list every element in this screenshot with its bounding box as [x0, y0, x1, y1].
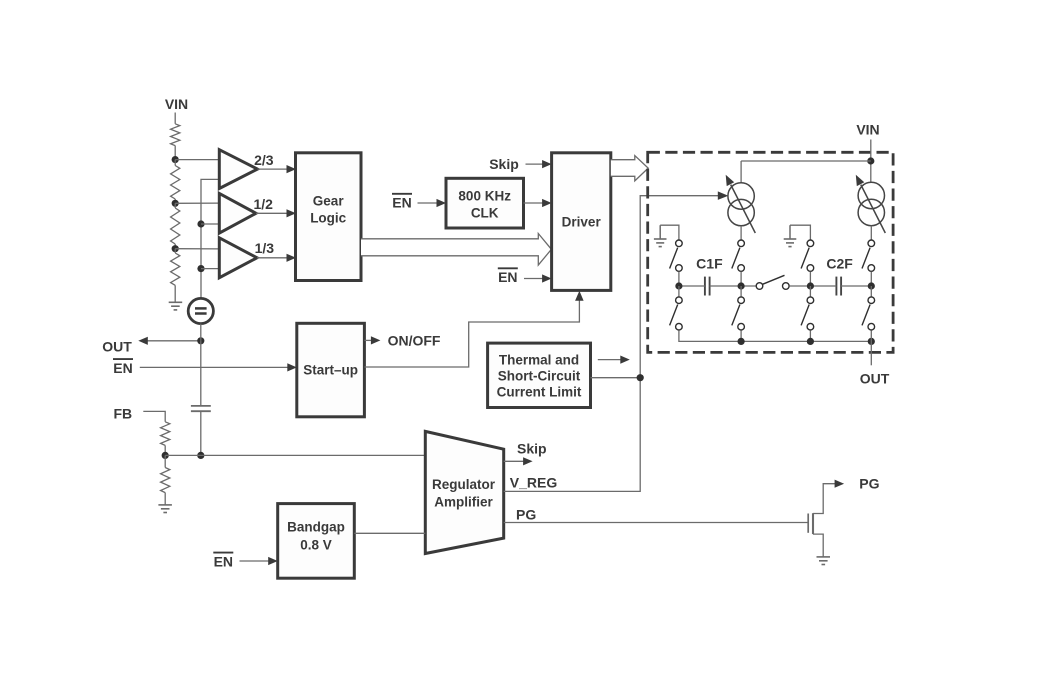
wire reference to A1 inverting input	[201, 179, 219, 298]
node ref-A2 junction	[197, 220, 219, 227]
wire mid rail C2F to col4	[841, 285, 871, 287]
source V1 (= symbol)	[188, 298, 213, 323]
svg-text:Skip: Skip	[489, 156, 519, 172]
svg-text:OUT: OUT	[860, 371, 890, 387]
wire S6 to bottom rail	[740, 330, 742, 341]
net EN label (left)	[113, 359, 133, 376]
net EN label (CLK input)	[392, 194, 412, 211]
svg-text:1/2: 1/2	[253, 196, 273, 212]
wire Start-up ON/OFF out	[364, 336, 380, 344]
node FB junction	[162, 452, 169, 459]
node VIN junction	[867, 157, 874, 164]
svg-text:V_REG: V_REG	[510, 474, 558, 490]
svg-text:PG: PG	[859, 475, 879, 491]
wire VIN into box	[870, 140, 872, 183]
wire top rail	[741, 160, 871, 162]
wire capacitor to FB rail	[200, 411, 202, 455]
net VIN label (charge pump)	[856, 121, 879, 137]
resistor R6 (FB bottom)	[161, 455, 170, 505]
wire A3 out 1/3 to Gear Logic	[255, 240, 296, 262]
svg-text:800 KHz: 800 KHz	[458, 189, 511, 204]
wire col1 to switch S3	[678, 286, 680, 297]
node cap-FB junction	[197, 452, 204, 459]
svg-text:Thermal and: Thermal and	[499, 353, 579, 368]
svg-text:Logic: Logic	[310, 211, 346, 226]
wire FB	[143, 411, 165, 421]
net V_REG label	[510, 474, 558, 490]
svg-text:ON/OFF: ON/OFF	[388, 332, 441, 348]
svg-text:VIN: VIN	[856, 121, 879, 137]
capacitor C_OUT	[191, 406, 211, 411]
net EN label (Bandgap input)	[213, 553, 233, 570]
node bottom rail col2	[738, 338, 745, 345]
transistor Q1 gate	[807, 514, 809, 533]
ground (switch S1)	[654, 225, 667, 246]
svg-text:OUT: OUT	[102, 338, 132, 354]
net OUT label (charge pump)	[860, 371, 890, 387]
block Driver	[552, 153, 611, 291]
svg-text:Current Limit: Current Limit	[497, 385, 582, 400]
block 800 KHz CLK	[446, 178, 524, 228]
wire CLK to Driver	[524, 199, 552, 207]
switch S9	[862, 297, 875, 330]
svg-text:EN: EN	[498, 269, 517, 285]
comparator A3 (1/3)	[219, 238, 257, 278]
node mid rail col3	[807, 282, 814, 289]
svg-text:EN: EN	[113, 360, 132, 376]
wire PG to transistor gate	[504, 522, 809, 524]
wire Q1 drain to PG arrow	[813, 480, 844, 514]
ground (FB)	[158, 505, 172, 513]
svg-text:Amplifier: Amplifier	[434, 495, 493, 510]
amplifier Regulator Amplifier	[425, 431, 503, 553]
wire col3 to switch S7	[809, 286, 811, 297]
wire OUT arrow	[138, 337, 201, 345]
wire mid rail S4 to C2F	[790, 285, 837, 287]
wire top rail to current source I1	[740, 161, 742, 183]
svg-text:C1F: C1F	[696, 255, 723, 271]
wire Bandgap to Regulator Amplifier	[354, 532, 425, 534]
svg-text:Bandgap: Bandgap	[287, 520, 345, 535]
block Gear Logic	[296, 153, 362, 281]
wire I2 to switch S8	[870, 226, 872, 240]
switch S6	[732, 297, 745, 330]
block Bandgap 0.8 V	[278, 504, 355, 579]
net VIN label (left divider)	[165, 96, 188, 112]
wire OUT node down to capacitor	[200, 341, 202, 406]
wire A1 out 2/3 to Gear Logic	[254, 152, 296, 173]
wire mid rail C1F to S4	[710, 285, 756, 287]
node mid rail col4	[868, 282, 875, 289]
ground (Q1 source)	[817, 557, 831, 565]
wire Q1 source to ground	[813, 534, 823, 557]
wire tap3 to comparator A3	[175, 248, 219, 250]
wire VIN to R1	[174, 113, 176, 124]
wire ground to S5	[790, 225, 810, 239]
switch S2	[732, 240, 745, 271]
block Thermal and Short-Circuit Current Limit	[488, 343, 591, 407]
svg-text:2/3: 2/3	[254, 152, 274, 168]
wire tap2 to comparator A2	[175, 202, 219, 204]
node ref-A3 junction	[197, 265, 219, 272]
svg-text:0.8 V: 0.8 V	[300, 538, 332, 553]
svg-text:CLK: CLK	[471, 206, 499, 221]
svg-text:1/3: 1/3	[255, 240, 275, 256]
net Skip label (Driver input)	[489, 156, 519, 172]
node V_REG junction	[637, 374, 644, 381]
comparator A1 (2/3)	[219, 150, 257, 189]
wire tap1 to comparator A1	[175, 159, 219, 161]
capacitor C2F	[826, 255, 853, 295]
svg-text:Start–up: Start–up	[303, 363, 358, 378]
resistor R2	[171, 160, 180, 204]
wire Thermal output arrow	[598, 356, 630, 364]
node tap1 junction	[172, 156, 179, 163]
bus arrow Driver to switch matrix	[611, 156, 648, 181]
net FB label	[113, 406, 132, 422]
node bottom rail col3	[807, 338, 814, 345]
svg-text:EN: EN	[392, 195, 411, 211]
current source I1 (variable)	[726, 175, 756, 233]
wire EN to Start-up	[140, 363, 297, 371]
wire Start-up to Driver bottom	[364, 291, 583, 367]
comparator A2 (1/2)	[219, 193, 256, 233]
resistor R1	[171, 124, 180, 160]
wire bottom rail to OUT	[870, 330, 872, 365]
bus arrow Gear Logic to Driver	[361, 234, 551, 266]
node mid rail col2	[738, 282, 745, 289]
switch S5	[801, 240, 814, 271]
node tap2 junction	[172, 200, 179, 207]
svg-text:Gear: Gear	[313, 194, 345, 209]
current source I2 (variable)	[856, 175, 886, 233]
net PG label (Regulator output)	[516, 506, 536, 522]
wire S7 to bottom rail	[809, 330, 811, 341]
svg-text:VIN: VIN	[165, 96, 188, 112]
wire ground to S1	[660, 225, 679, 239]
svg-text:Skip: Skip	[517, 441, 547, 457]
resistor R3	[171, 203, 180, 248]
node mid rail col1	[675, 282, 682, 289]
block Start-up	[297, 323, 365, 417]
svg-text:Short-Circuit: Short-Circuit	[498, 369, 581, 384]
wire col2 to switch S6	[740, 286, 742, 297]
node bottom rail col4	[868, 338, 875, 345]
node OUT junction	[197, 337, 204, 344]
wire FB rail to Regulator Amplifier	[165, 454, 425, 456]
resistor R5 (FB top)	[161, 422, 170, 456]
wire A2 out 1/2 to Gear Logic	[253, 196, 296, 217]
wire V1 to OUT node	[200, 324, 202, 341]
switch S3	[670, 297, 683, 330]
ground (switch S5)	[784, 225, 797, 246]
capacitor C1F	[696, 255, 723, 295]
wire Skip to Driver	[526, 160, 552, 168]
wire S5 to mid rail	[809, 272, 811, 286]
wire Thermal to V_REG node	[591, 377, 641, 379]
net ON/OFF label	[388, 332, 441, 348]
wire EN to CLK	[418, 199, 447, 207]
wire S2 to mid rail	[740, 272, 742, 286]
resistor R4	[171, 249, 180, 303]
svg-text:Driver: Driver	[562, 215, 602, 230]
wire EN to Bandgap	[240, 557, 278, 565]
wire mid rail left of C1F	[679, 285, 705, 287]
wire S8 to mid rail	[870, 272, 872, 286]
svg-text:Regulator: Regulator	[432, 477, 496, 492]
wire Regulator Skip out	[504, 457, 533, 465]
svg-text:FB: FB	[113, 406, 132, 422]
switch S8	[862, 240, 875, 271]
net EN label (Driver input)	[498, 268, 518, 285]
node tap3 junction	[172, 245, 179, 252]
wire I1 to switch S2	[740, 226, 742, 240]
switch S1	[670, 240, 683, 271]
wire S1 to mid rail	[678, 272, 680, 286]
svg-text:PG: PG	[516, 506, 536, 522]
wire V_REG to current source	[504, 191, 729, 491]
wire bottom rail	[679, 330, 871, 341]
transistor Q1 channel	[812, 513, 814, 534]
net PG label (output)	[859, 475, 879, 491]
net OUT label (left)	[102, 338, 132, 354]
switch S4 (mid)	[756, 275, 789, 289]
svg-text:C2F: C2F	[826, 255, 853, 271]
svg-text:EN: EN	[214, 553, 233, 569]
wire EN to Driver	[524, 274, 552, 282]
switch S7	[801, 297, 814, 330]
net Skip label (Regulator output)	[517, 441, 547, 457]
ground (divider)	[169, 302, 183, 310]
wire col4 to switch S9	[870, 286, 872, 297]
boundary dashed box (charge pump)	[648, 152, 893, 352]
